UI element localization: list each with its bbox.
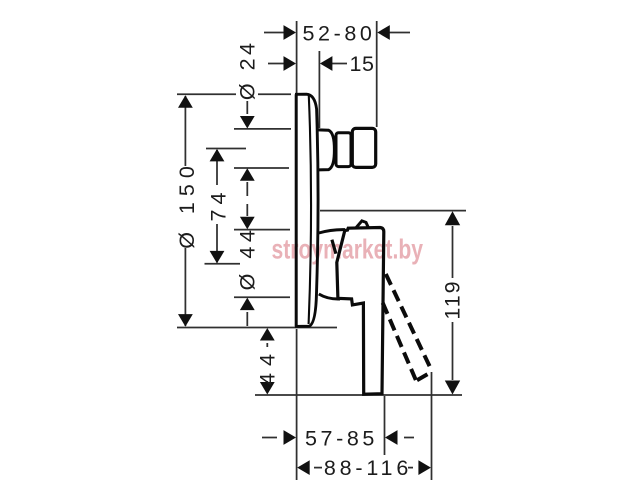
svg-text:Ø 44: Ø 44 <box>236 226 260 291</box>
svg-text:Ø 150: Ø 150 <box>175 160 199 249</box>
extension line sleeve top (y=229.6) <box>234 229 290 231</box>
extension line plate bottom (y=327.5) <box>177 327 337 329</box>
dimension line 88-116 (y=467.6) <box>314 467 322 469</box>
arrow 119 top <box>445 211 460 225</box>
cartridge pin <box>332 240 336 254</box>
dimension line 44 (x=267.3) <box>266 343 268 347</box>
arrow 57-85 right <box>385 430 398 445</box>
svg-text:44: 44 <box>255 347 279 385</box>
spout stub dome section <box>318 130 334 170</box>
svg-text:15: 15 <box>350 52 375 76</box>
arrow 52-80 left <box>284 25 297 40</box>
arrow 88-116 left <box>297 460 310 475</box>
svg-text:119: 119 <box>440 279 464 319</box>
extension line handle centre (y=263.8) <box>205 263 241 265</box>
extension line lever solid tip (x=384.5) <box>384 396 386 455</box>
arrow D44 bottom <box>240 298 255 311</box>
extension line spout centre (y=148.5) <box>206 148 246 150</box>
dimension 57-85 tails <box>262 437 277 439</box>
arrow 15 right <box>320 56 333 71</box>
dimension line D150 (x=185.4) <box>184 96 186 166</box>
svg-text:74: 74 <box>207 188 231 222</box>
extension line plate front (x=319.4) <box>318 51 320 128</box>
extension line plate top (y=94) <box>177 93 236 95</box>
arrow 15 left <box>284 56 297 71</box>
dimension 15 tails <box>268 63 284 65</box>
svg-text:52-80: 52-80 <box>303 22 376 46</box>
handle body <box>337 228 384 395</box>
spout stub large cylinder <box>352 128 375 167</box>
spout stub small cylinder <box>336 133 351 167</box>
dimension line 74 (x=217) <box>216 150 218 185</box>
handle top tab <box>356 221 369 228</box>
dimension line D24 (x=247.3) <box>246 101 248 114</box>
extension line wall plane bottom (x=296.6) <box>296 329 298 480</box>
lever alternate position dashed <box>383 274 432 380</box>
arrow D24 top <box>240 116 255 129</box>
sleeve bottom arc <box>319 294 340 299</box>
extension line handle tip (y=395) <box>255 394 462 396</box>
arrow 119 bottom <box>445 381 460 395</box>
arrow D150 bottom <box>178 314 193 327</box>
extension line sleeve bottom (y=297.2) <box>234 296 290 298</box>
arrow D24 bottom <box>240 168 255 181</box>
plate inner contour <box>309 96 311 324</box>
arrow D44 top <box>240 217 255 230</box>
dimension line 119 (x=452.5) <box>452 226 454 278</box>
dimension line D44 (x=247.3) <box>246 312 248 326</box>
arrow 52-80 right <box>377 25 390 40</box>
sleeve top arc <box>319 230 345 233</box>
arrow 74 bottom <box>210 251 225 264</box>
svg-text:stroymarket.by: stroymarket.by <box>272 235 424 265</box>
arrow 44 top <box>260 328 275 341</box>
arrow 88-116 right <box>418 460 431 475</box>
extension line wall plane top (x=296.6) <box>296 21 298 93</box>
extension line spout top (y=128.9) <box>234 128 291 130</box>
svg-text:88-116: 88-116 <box>324 456 412 480</box>
extension line spout bottom (y=168) <box>234 167 289 169</box>
arrow 57-85 left <box>284 430 297 445</box>
extension line lever dashed tip (x=431.5) <box>431 372 433 480</box>
arrow 74 top <box>210 149 225 162</box>
arrow 44 bottom <box>260 382 275 395</box>
arrow D150 top <box>178 95 193 108</box>
extension line handle top (y=210.6) <box>320 210 466 212</box>
plate escutcheon side view <box>295 94 318 326</box>
dimension 52-80 tails <box>264 32 284 34</box>
extension line spout front (x=376.7) <box>376 21 378 127</box>
svg-text:57-85: 57-85 <box>305 427 378 451</box>
svg-text:Ø 24: Ø 24 <box>235 39 259 100</box>
